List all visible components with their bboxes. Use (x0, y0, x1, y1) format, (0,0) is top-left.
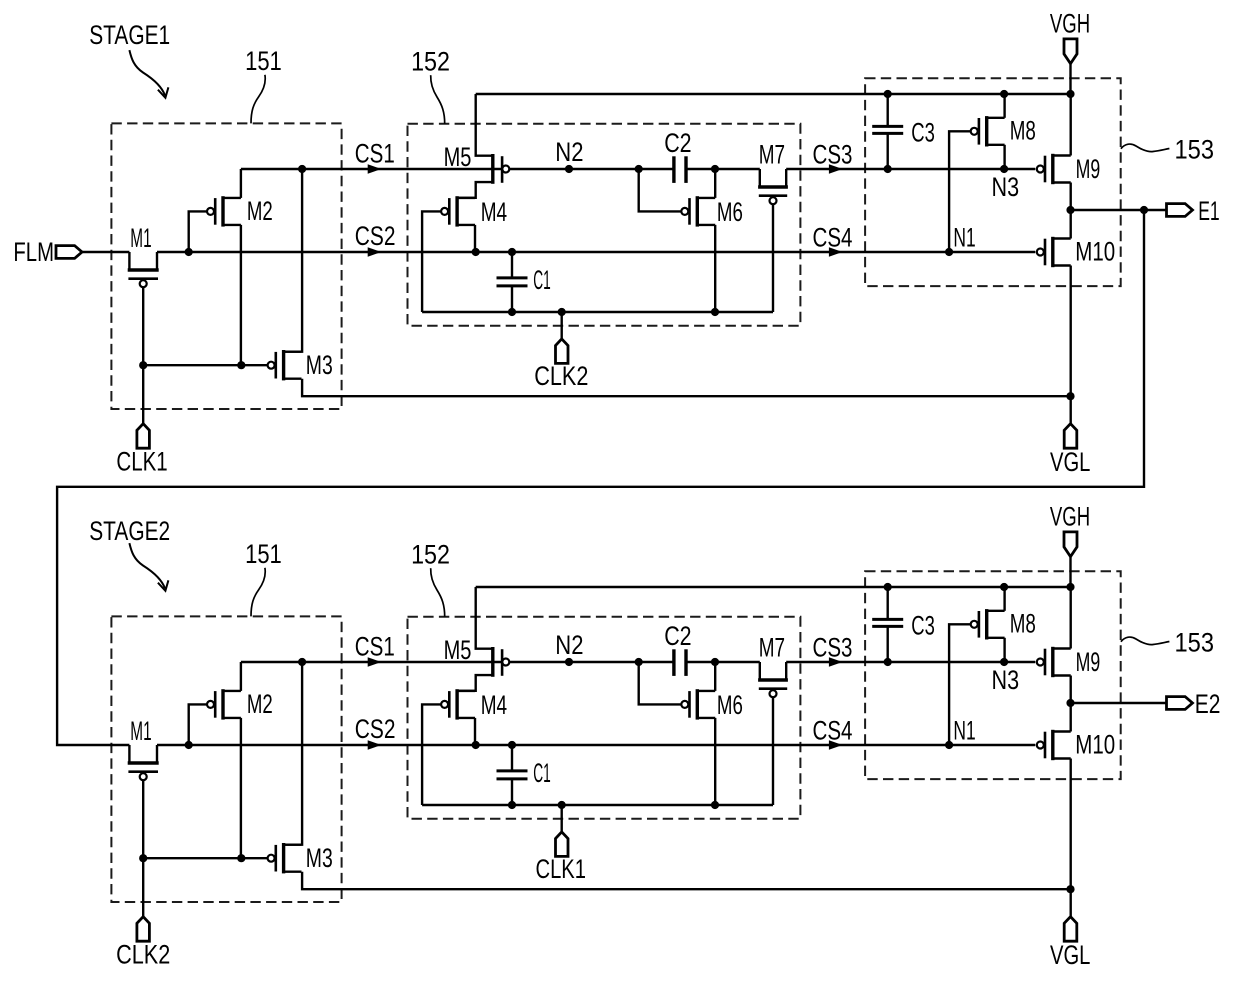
svg-text:M9: M9 (1076, 647, 1101, 677)
svg-text:CS2: CS2 (355, 221, 396, 251)
svg-text:CS1: CS1 (355, 139, 395, 169)
svg-text:C2: C2 (664, 621, 691, 651)
svg-text:M5: M5 (444, 142, 472, 172)
svg-text:E1: E1 (1198, 196, 1220, 226)
svg-text:M1: M1 (130, 716, 151, 746)
svg-text:VGH: VGH (1050, 502, 1090, 532)
svg-text:M6: M6 (717, 690, 743, 720)
svg-text:C3: C3 (911, 611, 935, 641)
svg-text:CLK1: CLK1 (536, 854, 587, 884)
svg-text:M6: M6 (717, 197, 743, 227)
svg-text:N3: N3 (992, 172, 1020, 202)
svg-text:M7: M7 (759, 140, 785, 170)
svg-text:M2: M2 (247, 196, 273, 226)
svg-text:M5: M5 (444, 635, 472, 665)
svg-text:VGL: VGL (1050, 940, 1090, 970)
svg-text:E2: E2 (1195, 689, 1221, 719)
svg-text:CS4: CS4 (813, 716, 853, 746)
svg-text:M7: M7 (759, 633, 785, 663)
svg-text:N1: N1 (953, 715, 975, 745)
svg-text:C1: C1 (533, 265, 551, 295)
svg-text:VGH: VGH (1050, 9, 1090, 39)
svg-text:151: 151 (245, 539, 282, 569)
svg-text:M10: M10 (1075, 730, 1115, 760)
svg-text:M4: M4 (481, 690, 507, 720)
svg-text:CS4: CS4 (813, 223, 853, 253)
svg-text:153: 153 (1175, 628, 1215, 658)
svg-text:M10: M10 (1075, 237, 1115, 267)
svg-text:M9: M9 (1076, 154, 1101, 184)
svg-text:STAGE2: STAGE2 (89, 516, 170, 546)
svg-text:N3: N3 (992, 665, 1020, 695)
svg-text:FLM: FLM (13, 237, 54, 267)
svg-text:151: 151 (245, 46, 282, 76)
svg-text:M8: M8 (1010, 609, 1036, 639)
svg-text:CS2: CS2 (355, 714, 396, 744)
svg-text:C1: C1 (533, 758, 551, 788)
svg-text:M2: M2 (247, 689, 273, 719)
svg-text:N2: N2 (555, 630, 583, 660)
svg-text:M8: M8 (1010, 116, 1036, 146)
svg-text:C2: C2 (664, 128, 691, 158)
svg-text:CLK1: CLK1 (116, 447, 167, 477)
svg-text:M4: M4 (481, 197, 507, 227)
svg-text:CLK2: CLK2 (534, 361, 588, 391)
svg-text:M3: M3 (306, 843, 333, 873)
svg-text:VGL: VGL (1050, 447, 1090, 477)
svg-text:CS3: CS3 (813, 633, 853, 663)
svg-text:CLK2: CLK2 (116, 940, 170, 970)
svg-text:M3: M3 (306, 350, 333, 380)
svg-text:CS1: CS1 (355, 632, 395, 662)
svg-text:STAGE1: STAGE1 (89, 20, 170, 50)
svg-text:N1: N1 (953, 222, 975, 252)
svg-text:M1: M1 (130, 223, 151, 253)
svg-text:152: 152 (411, 47, 450, 77)
svg-text:153: 153 (1175, 135, 1215, 165)
svg-text:C3: C3 (911, 118, 935, 148)
svg-text:N2: N2 (555, 137, 583, 167)
svg-text:152: 152 (411, 540, 450, 570)
svg-text:CS3: CS3 (813, 140, 853, 170)
